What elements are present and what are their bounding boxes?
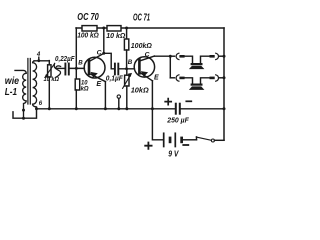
wire emitter OC71 down [151,81,153,109]
svg-text:10kΩ: 10kΩ [131,85,149,94]
node tap 4 [37,59,40,62]
wire emitter OC70 down [104,82,106,109]
transistor OC70 [84,53,105,81]
node primary bottom on return wire [22,117,25,120]
wire collector OC71 to headphone bus [154,55,170,57]
transformer secondary winding [33,61,37,109]
capacitor 0,1µF [114,64,116,75]
wire S-link from pot wiper to capacitor [54,63,55,68]
svg-text:C: C [97,49,102,56]
svg-text:6: 6 [39,101,43,107]
svg-text:OC 70: OC 70 [77,12,99,23]
wire collector to 0.1uF jog [104,53,114,69]
wire right rail [223,28,225,140]
capacitor 0,22µF [64,64,66,75]
potentiometer 10kΩ (bias OC71) [126,69,128,75]
wire tap4 to pot [34,60,49,62]
node 10k base resistor bottom [75,107,78,110]
wire 0.1uF to base OC71 [119,68,134,70]
node pot2 bottom [125,107,128,110]
headphone earpiece 1 (upper) [170,53,224,69]
svg-text:C: C [145,52,150,59]
transistor OC71 [134,56,154,81]
wire bottom bus [37,108,176,110]
svg-text:kΩ: kΩ [81,85,89,92]
node top rail / collector [102,27,105,30]
resistor 10kΩ (collector load OC70, in top rail) [107,26,121,31]
svg-text:250 µF: 250 µF [166,117,189,124]
node terminal stub [117,107,120,110]
wire collector drop OC70 [103,28,105,53]
svg-text:0,22µF: 0,22µF [55,56,75,63]
svg-text:OC 71: OC 71 [133,13,150,24]
svg-text:B: B [128,59,133,66]
headphone earpiece 2 (lower) [170,75,224,90]
svg-text:10 kΩ: 10 kΩ [44,76,60,83]
wire battery drop [152,109,163,140]
resistor 100kΩ (feedback, in top rail) [82,26,97,31]
svg-text:B: B [78,60,83,67]
label + (250µF) [165,99,171,105]
battery 9V [163,133,165,146]
svg-text:0,1µF: 0,1µF [106,75,124,82]
node base OC70 [75,67,78,70]
wire base node down to 10k resistor [75,68,77,79]
wire bottom-left return [13,109,37,118]
node collector OC70 [102,52,105,55]
node rail upper earpiece [223,55,226,58]
node rail/100k [125,27,128,30]
node base OC71 [125,67,128,70]
node bus to rail [223,107,226,110]
svg-text:wie: wie [5,76,20,87]
svg-text:4: 4 [36,52,41,58]
terminal stub with circle [117,95,120,98]
label + (battery) [145,143,151,149]
node secondary bottom on bus [35,107,38,110]
svg-text:E: E [154,75,159,82]
capacitor 250µF electrolytic [175,104,177,114]
svg-text:100kΩ: 100kΩ [131,43,153,50]
svg-text:100 kΩ: 100 kΩ [77,32,99,39]
transformer core [27,59,29,105]
wire headphone left bus [169,56,171,78]
svg-text:9 V: 9 V [168,150,179,159]
label − (battery) [183,144,188,146]
node emitter OC70 [104,107,107,110]
node rail lower earpiece [223,76,226,79]
resistor 100kΩ vertical (bias OC71) [126,28,128,39]
svg-text:L-1: L-1 [5,87,18,98]
transformer primary winding wie L-1 [15,70,26,118]
svg-text:10 kΩ: 10 kΩ [106,33,126,40]
svg-text:E: E [96,79,101,88]
potentiometer 10kΩ (volume) [48,65,51,77]
wire 10k resistor to bus [75,90,77,109]
node pot1 bottom [48,107,51,110]
resistor 10kΩ (base OC70 to bus) [75,79,80,90]
label − (250µF) [186,100,191,102]
switch [196,137,198,140]
wire left riser from rail to base node OC70 [75,28,77,68]
wire top rail [76,27,224,29]
node primary bottom upper [22,109,25,112]
node emitter OC71 / battery drop [151,107,154,110]
